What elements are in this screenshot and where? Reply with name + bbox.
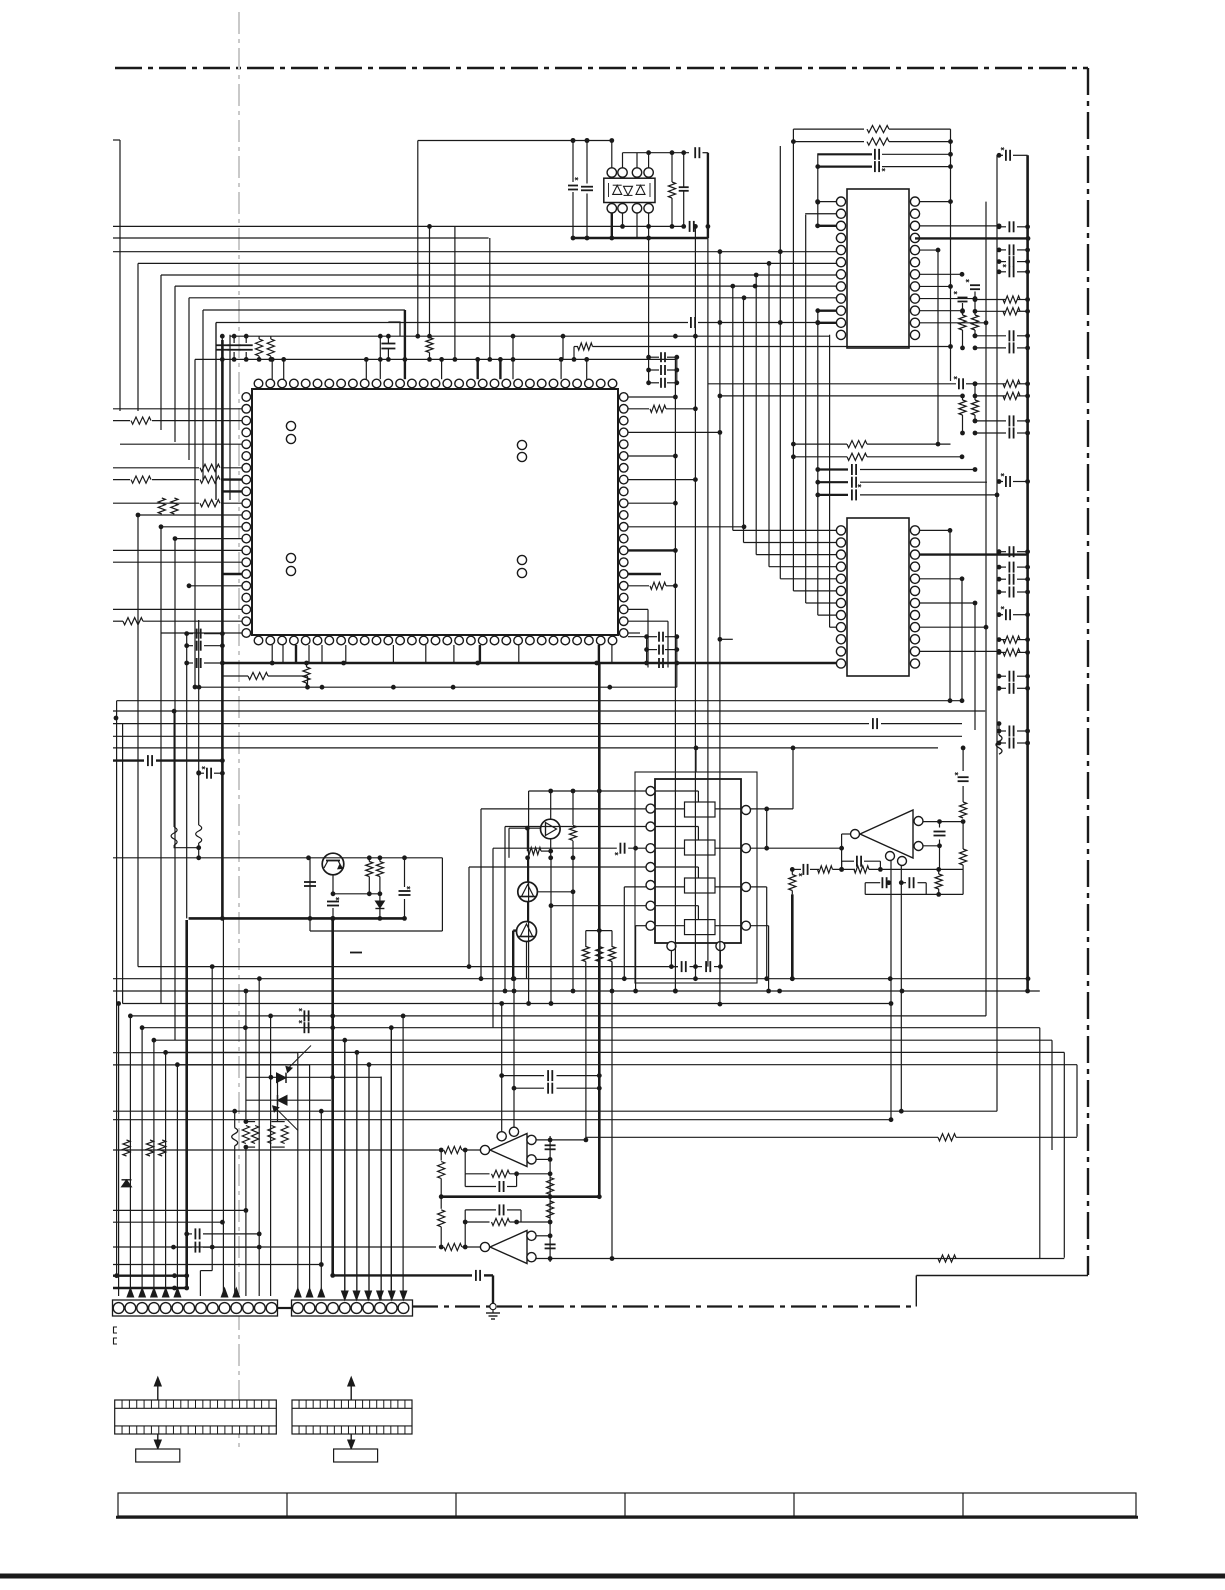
wire IC U2 left pin connections (818, 201, 836, 203)
wire thick y918 (189, 917, 405, 920)
wire thick vertical x187 (185, 920, 188, 1288)
wire U6A tops (501, 1004, 503, 1132)
resistor R22 (793, 141, 864, 143)
wire thick bus y238 right (915, 237, 1028, 239)
wire U6A out2 (536, 1158, 550, 1160)
resistor cluster RB (975, 383, 1006, 385)
wire nest elbow y1052 right (357, 1051, 1064, 1053)
wire link CN1-CN2 (278, 1307, 292, 1309)
wire staircase y335 (230, 335, 830, 337)
op-amp U4 lower pins (886, 852, 895, 861)
wire opto bottom pins down (611, 213, 613, 238)
wire left comb verticals lower (137, 515, 139, 967)
resistor R16 (573, 347, 575, 360)
buffer B3 circle-triangle (517, 922, 537, 942)
wire bus y966 (138, 966, 678, 968)
wire vertical x720 (719, 252, 721, 1004)
resistor R54 (146, 1140, 153, 1156)
edge marks below CN1 (114, 1327, 118, 1333)
resistor R35 (509, 827, 541, 829)
wire diode line y1100 (246, 1099, 331, 1101)
connector CN2 pins (292, 1303, 303, 1314)
wire bus above IC y359 (195, 358, 675, 360)
wire FL1 left verticals (528, 791, 530, 1004)
wire thick x599 (598, 663, 601, 1197)
wire buffer B1 (550, 791, 552, 819)
wire thick CN1 stub y1288 (113, 1287, 187, 1289)
resistor R34 (376, 862, 383, 877)
photo-diode D2 with arrow (278, 1095, 288, 1105)
resistor R42 (962, 822, 964, 849)
wire IC bottom pin stubs (271, 645, 273, 663)
capacitor C51 pair (303, 1010, 305, 1021)
resistor R33 (366, 862, 373, 877)
capacitor cluster CE (999, 675, 1006, 677)
op-amp U6A output pins (527, 1135, 536, 1144)
wire bus y991 (113, 990, 1040, 992)
resistor R63 (547, 1201, 554, 1218)
resistor R21 (793, 128, 864, 130)
resistor R64 (440, 1197, 442, 1209)
wire x612 vertical (611, 962, 613, 1259)
wire rail stub x513 (512, 336, 514, 359)
wire elbow y381 (708, 383, 956, 385)
op-amp U6B input pin (480, 1242, 489, 1251)
opto U5 diode triangles (613, 185, 622, 194)
wire vertical x695 (694, 226, 696, 966)
resistor R25 pair between ICs (793, 443, 847, 445)
wire diode line y1077 (246, 1076, 381, 1078)
wire fan y1027 (142, 1027, 391, 1029)
resistor R36 (572, 791, 574, 825)
label box J1 (136, 1449, 180, 1462)
capacitor C25 polar (999, 614, 1003, 616)
wire buffer B2 B3 (527, 858, 529, 882)
wire bus y761 thick (113, 759, 144, 761)
buffer B1 circle-triangle (541, 819, 561, 839)
capacitor C32 polar (199, 772, 204, 774)
wire fan y1076 (380, 1077, 382, 1295)
capacitor C24 polar (999, 481, 1003, 483)
wire U4 power pins down (890, 861, 892, 1120)
wire vertical x793 (792, 129, 794, 591)
filter block FL1 inner box (655, 779, 741, 943)
capacitor C62 (545, 1243, 556, 1245)
connector CN2 body (292, 1300, 413, 1316)
op-amp U4 triangle (860, 810, 913, 858)
wire bus y252 (113, 251, 836, 253)
ribbon connector J2 (to display board) (292, 1400, 412, 1434)
wire rail stub x563 (562, 336, 564, 359)
wire bus y736 (113, 735, 962, 737)
wire IC U3 left pin connections (720, 638, 733, 640)
op-amp U4 input pin (851, 830, 860, 839)
page footer bar (0, 1574, 1225, 1579)
capacitor cluster CA (999, 226, 1006, 228)
wire vertical x732 (732, 286, 734, 530)
arrows into CN2 (295, 1288, 302, 1297)
wire CN1 pin13 vertical (258, 979, 260, 1296)
wire bus y663 thick (224, 662, 836, 664)
wire rail x1028 thick (1026, 155, 1029, 991)
filter block FL1 outer box (635, 772, 757, 983)
wire vertical x938 (937, 250, 939, 444)
capacitor C41 (934, 831, 946, 833)
wire bus y1003 (123, 1003, 893, 1005)
capacitor C63 pair (502, 1075, 544, 1077)
wire bus y226 (113, 225, 686, 227)
connector CN1 pins (113, 1303, 124, 1314)
inductor L2 (998, 724, 1000, 735)
wire x550 vertical (549, 1136, 551, 1262)
IC U1 bottom pin row (254, 636, 263, 645)
wire nest x892 (889, 1001, 894, 1006)
inductor L1 (234, 1111, 236, 1128)
IC U1 inner index circles bottom-left (286, 553, 295, 562)
IC U3 body (lower right DIP) (847, 518, 909, 676)
wire transistor row y858 (113, 857, 442, 859)
resistor R23 pair (959, 315, 966, 330)
wire IC top pin stubs (271, 359, 273, 379)
wire elbow y395 (721, 395, 962, 397)
wire vertical x768b (768, 263, 770, 566)
wire vertical x755 (755, 275, 757, 555)
wire IC left pin connections (113, 408, 242, 410)
capacitor C12 series y226 (689, 221, 691, 232)
wire U6A feedback (464, 1150, 466, 1174)
capacitor cluster CF (999, 730, 1006, 732)
wire CN2 pin verticals up (297, 1053, 299, 1288)
crystal X1 (381, 343, 395, 345)
capacitor C42 polar (958, 776, 969, 778)
wire fan y1052 (166, 1051, 357, 1053)
wire fan y1040 (154, 1039, 345, 1041)
capacitor C13 trio right of IC (649, 356, 659, 358)
wire vertical x805 (805, 215, 807, 603)
wire FL1 right pin connections (751, 808, 794, 810)
wire CN1 pin14 vertical (270, 1016, 272, 1296)
resistor R31 (248, 672, 268, 679)
connector CN1 body (113, 1300, 278, 1316)
capacitor cluster CD (999, 551, 1006, 553)
IC U1 right pin column (619, 393, 628, 402)
transistor Q1 wires (332, 875, 334, 894)
op-amp U6B triangle (490, 1231, 527, 1264)
capacitor C31 trio left (187, 633, 193, 635)
capacitor C11 trio on y336 (221, 336, 223, 343)
wire staircase y275 (161, 274, 836, 276)
op-amp U6A triangle (490, 1134, 527, 1167)
capacitor C1 polar (572, 141, 574, 183)
ribbon connector J1 (to operation board) (115, 1400, 277, 1434)
wire vertical x675 (674, 357, 676, 991)
resistor R44 (789, 875, 796, 891)
op-amp U6A top pins (497, 1132, 506, 1141)
wire thick x792 (791, 894, 794, 978)
wire U6B out1 (536, 1235, 550, 1237)
op-amp U4 output pins (914, 817, 923, 826)
opto U5 bottom pins (607, 204, 616, 213)
wire bus y1111 (113, 1110, 997, 1112)
wire thick vertical x332 (331, 918, 334, 1275)
resistor R13 right of opto (668, 182, 675, 198)
wire bus y748 (113, 747, 938, 749)
wire staircase y263 (138, 262, 836, 264)
wire bus y1264 (113, 1264, 321, 1266)
wire vertical x817b (817, 310, 819, 615)
capacitor C33 (304, 881, 316, 883)
wire staircase y322 (216, 322, 688, 324)
IC U1 top pin row (254, 379, 263, 388)
IC U2 body (upper right DIP) (847, 189, 909, 348)
wire nest elbow y1040 right (345, 1039, 1052, 1041)
wire rail x987 (985, 202, 987, 1016)
wire CN1 pin10 vertical (222, 920, 224, 1296)
wire nest elbow y1015 right (403, 1015, 986, 1017)
wire U4 output top (923, 821, 963, 823)
IC U1 left pin column (242, 393, 251, 402)
wire CN2 down pin verticals (344, 1040, 346, 1300)
wire bus y711 (113, 710, 985, 712)
filter FL1 bottom pins (667, 942, 676, 951)
IC U1 inner index circles top-left (286, 421, 295, 430)
wire thick y1196 (441, 1195, 599, 1198)
fold mark gray dash-dot vertical line (238, 12, 240, 1448)
resistor R37 trio (586, 930, 612, 932)
IC U1 inner index circles bottom-right (517, 555, 526, 564)
wire vertical x744 (743, 298, 745, 543)
opto U5 top pins (607, 168, 616, 177)
capacitor cluster CC (975, 420, 1006, 422)
wire U3 right verticals (949, 530, 951, 700)
wire U4 input (842, 833, 851, 835)
wire bus y1222 (113, 1221, 222, 1223)
capacitor C23 polar (999, 154, 1003, 156)
inductor L4 (198, 773, 200, 825)
capacitor C14 trio below right of IC (647, 636, 657, 638)
wire bus y1210 (113, 1209, 246, 1211)
wire U2 right pin stubs (920, 201, 951, 203)
wire vertical x429 (429, 226, 431, 336)
capacitor cluster CB (975, 335, 1006, 337)
resistor R15 pair vertical (158, 498, 165, 514)
wire U6A input line (113, 1149, 436, 1151)
IC U1 inner index circles mid-right (517, 440, 526, 449)
wire U3 right pin stubs (920, 529, 950, 531)
IC U3 right pins (910, 526, 919, 535)
filter FL1 left pins (646, 787, 655, 796)
IC U2 left pins (836, 197, 845, 206)
resistor R51 parallel pair (245, 991, 247, 1122)
resistor R12 (426, 338, 433, 353)
capacitor C61 (545, 1144, 556, 1146)
wire staircase y298 (189, 297, 836, 299)
op-amp U6A input pin (480, 1145, 489, 1154)
label box J2 (334, 1449, 378, 1462)
wire vertical x781 (779, 146, 781, 579)
filter FL1 bottom caps C (670, 951, 672, 967)
wire thick y1275 right (333, 1274, 472, 1276)
wire vertical x198 (198, 620, 200, 773)
ground symbol (490, 1303, 496, 1309)
resistor R41 (962, 748, 964, 771)
diode D4 (122, 1180, 132, 1187)
resistor R32 vertical (303, 667, 310, 683)
transistor Q1 (322, 853, 344, 875)
capacitor C26 trio between ICs (818, 468, 848, 470)
border frame right dash-dot line (1087, 68, 1089, 1275)
wire thick CN1 stub y1275 (113, 1274, 187, 1276)
wire U4 feedback (792, 868, 801, 870)
inductor L3 (173, 711, 175, 827)
wire x586 vertical (585, 979, 587, 1140)
resistor R24 pair (959, 400, 966, 415)
border frame bottom dash-dot line (413, 1305, 916, 1307)
resistor cluster RA (975, 299, 1006, 301)
opto-isolator U5 body (604, 178, 655, 202)
wire transistor loop box (441, 858, 443, 931)
wire staircase y286 (175, 285, 836, 287)
wire CN1 pin verticals (118, 1004, 120, 1297)
resistor R53 (123, 1140, 130, 1156)
wire fan y1064 (177, 1064, 369, 1066)
minus label dash (350, 952, 362, 954)
wire fan y1015 (130, 1015, 403, 1017)
wire bus y238 (113, 237, 489, 239)
capacitor C3 (679, 186, 689, 188)
capacitor C2 (586, 141, 588, 184)
resistor R61 (440, 1150, 442, 1161)
wire U6B input line (113, 1246, 436, 1248)
wire rail x997 (996, 155, 998, 1111)
arrows into CN1 (127, 1288, 134, 1297)
wire CN1 pin8 elbow (211, 967, 213, 1271)
wire vertical x417 (417, 141, 419, 337)
capacitor C34 polar (399, 890, 411, 892)
diode D3 zener (375, 901, 384, 908)
wire thick bus y238 mid (575, 237, 708, 239)
wire left stub y140 (113, 139, 120, 141)
border frame top dash-dot line (115, 67, 1088, 69)
wire vertical x817 (817, 153, 819, 226)
resistor R52 parallel pair (277, 1077, 279, 1121)
wire left edge dot y718 (114, 716, 119, 721)
IC U1 body (large QFP microcontroller) (252, 389, 618, 635)
wire FL1 left pin connections (529, 790, 646, 792)
wire bus y724 (113, 723, 869, 725)
capacitor C21 (818, 153, 872, 155)
capacitor C52 (187, 1233, 192, 1235)
wire IC right pin connections (628, 396, 675, 398)
wire vertical x829 (829, 335, 831, 627)
title block table (118, 1493, 1136, 1516)
wire U6B output line (536, 1258, 1064, 1260)
wire nest elbow y1027 right (391, 1027, 1040, 1029)
wire U4 output bottom (923, 845, 940, 847)
capacitor C53 (174, 1246, 193, 1248)
wire vertical x454 (454, 226, 456, 359)
wire nest elbow y1064 right (369, 1064, 1077, 1066)
resistor R11 pair on y336 (256, 339, 263, 356)
photo-diode D1 with arrow (277, 1073, 287, 1083)
wire staircase y310 (203, 309, 405, 311)
IC U3 left pins (836, 526, 845, 535)
wire bus y701 (117, 700, 962, 702)
filter FL1 internal wires (655, 790, 698, 792)
filter FL1 internal resistor elements (685, 802, 716, 817)
wire U2 right verticals (950, 129, 952, 381)
wire opto top pins up (611, 141, 613, 168)
filter FL1 right pins (742, 806, 751, 815)
wire resistor line y1137 (586, 1136, 938, 1138)
resistor R43 (935, 874, 942, 889)
IC U2 right pins (910, 197, 919, 206)
resistor cluster RC (999, 639, 1006, 641)
wire U6A out1 (536, 1139, 586, 1141)
wire U4 below caps (869, 882, 880, 884)
wire bus y687 (199, 686, 677, 688)
resistor R62 (547, 1178, 554, 1195)
wire bus y978 (113, 978, 1028, 980)
border frame bottom-right jog (915, 1276, 917, 1307)
wire bus y1120 (113, 1119, 891, 1121)
buffer B2 circle-triangle (518, 882, 538, 902)
wire thick vertical x222 (221, 340, 224, 920)
wire U6B feedback (464, 1210, 466, 1247)
wire opto top bus y152 (623, 152, 690, 154)
op-amp U6B output pins (527, 1231, 536, 1240)
wire vertical x488 (489, 238, 491, 359)
capacitor C22 (818, 166, 872, 168)
